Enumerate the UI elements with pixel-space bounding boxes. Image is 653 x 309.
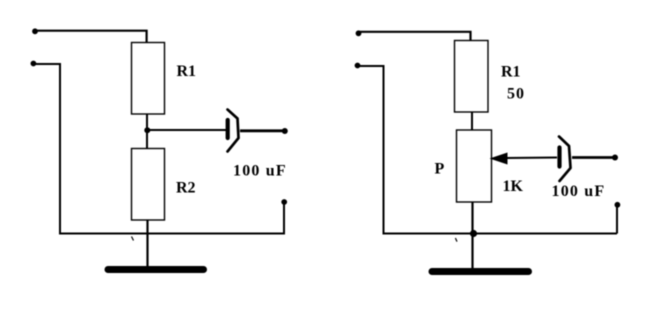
- node OUT2 (left circuit lower output terminal dot): [281, 199, 287, 205]
- wire from OUT4 down to bottom rail (right circuit): [616, 205, 618, 234]
- wire from IN3 to top of R1 (right circuit): [359, 32, 471, 41]
- node IN2 (left circuit lower input terminal dot): [31, 61, 37, 67]
- resistor R2 (left circuit): [132, 149, 165, 221]
- node OUT4 (right circuit lower output terminal dot): [615, 202, 621, 208]
- capacitor C2 right curved plate: [559, 137, 571, 182]
- wire from wiper to capacitor C2 (right circuit): [505, 157, 557, 160]
- wire from C2 to output terminal (right circuit): [572, 156, 615, 159]
- node OUT1 (left circuit capacitor output terminal dot): [282, 128, 288, 134]
- wire from IN4 down the left side to bottom rail (right circuit): [358, 66, 618, 234]
- svg-text:R1: R1: [177, 63, 197, 80]
- svg-text:100 uF: 100 uF: [233, 163, 287, 180]
- resistor R1 (left circuit): [132, 43, 165, 115]
- ground (left circuit): [108, 266, 204, 273]
- svg-text:50: 50: [507, 86, 525, 103]
- wire from OUT2 down to bottom rail (left circuit): [283, 202, 285, 234]
- capacitor C1 left plate (electrolytic, left circuit): [226, 120, 230, 138]
- svg-text:100 uF: 100 uF: [552, 183, 606, 200]
- wire from R2 bottom through bottom rail to ground (left circuit): [146, 220, 148, 267]
- wire from IN1 to top of R1 (left circuit): [35, 31, 147, 43]
- junction node A (R1/R2 midpoint, left circuit): [144, 127, 150, 133]
- svg-text:1K: 1K: [503, 178, 524, 195]
- resistor R1 (right circuit): [455, 41, 489, 113]
- stray tick mark (left circuit, below bottom rail): [132, 237, 134, 241]
- potentiometer wiper arrowhead: [490, 153, 508, 165]
- ground (right circuit): [432, 268, 529, 275]
- wire from potentiometer bottom through bottom rail to ground (right circuit): [471, 202, 473, 269]
- wire from node A to capacitor C1: [147, 129, 226, 131]
- capacitor C1 right curved plate: [228, 110, 239, 152]
- wire from IN2 down the left side to bottom rail (left circuit): [33, 64, 285, 234]
- junction node B (bottom rail junction dot, right circuit): [470, 230, 477, 237]
- wire from R1 bottom to potentiometer P top (right circuit): [471, 112, 473, 131]
- potentiometer P body (right circuit): [457, 130, 492, 202]
- wire from R1 bottom to R2 top (left circuit): [146, 114, 148, 149]
- svg-text:R2: R2: [176, 180, 196, 197]
- node IN3 (right circuit top input terminal dot): [356, 30, 362, 36]
- node IN1 (left circuit top input terminal dot): [32, 28, 38, 34]
- svg-text:P: P: [435, 160, 445, 177]
- svg-text:R1: R1: [501, 63, 521, 80]
- stray tick mark (right circuit, below bottom rail): [455, 238, 457, 242]
- node OUT3 (right circuit capacitor output terminal dot): [612, 155, 618, 161]
- wire from C1 to output terminal (left circuit): [240, 129, 285, 132]
- capacitor C2 left plate (electrolytic, right circuit): [557, 148, 561, 167]
- node IN4 (right circuit lower input terminal dot): [355, 63, 361, 69]
